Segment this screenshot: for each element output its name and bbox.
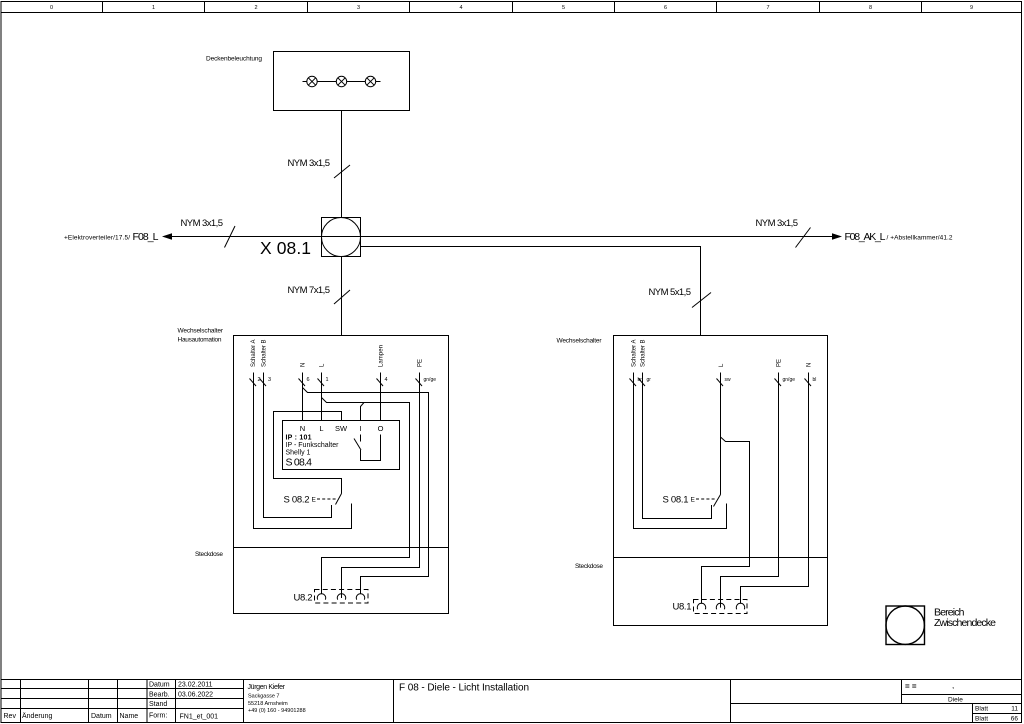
socket 2 (U8.2) [337,594,345,600]
wire X08.1 to right switch box [361,247,701,336]
svg-text:11: 11 [1011,706,1018,713]
svg-text:Schalter A: Schalter A [632,340,638,368]
svg-text:F08_AK_L: F08_AK_L [845,231,886,243]
svg-text:4: 4 [385,377,388,383]
socket group U8.1 dashed box [694,600,748,614]
svg-text:PE: PE [777,359,783,367]
svg-text:IP : 101: IP : 101 [286,435,312,442]
svg-text:I: I [359,424,361,433]
svg-text:Stand: Stand [149,701,167,708]
socket 3 (U8.1) [736,603,744,609]
svg-text:23.02.2011: 23.02.2011 [178,682,213,689]
svg-text:gn/ge: gn/ge [424,377,437,383]
svg-text:gr: gr [647,377,652,383]
svg-text:Sackgasse 7: Sackgasse 7 [248,693,280,699]
svg-text:U8.2: U8.2 [294,593,313,604]
branch N to socket rail [303,388,429,595]
cable slash (top) [334,165,350,178]
internal switch blade [354,439,361,451]
svg-text:S 08.4: S 08.4 [286,457,313,469]
svg-text:E: E [691,497,696,504]
svg-text:Zwischendecke: Zwischendecke [934,617,996,629]
svg-text:Shelly 1: Shelly 1 [286,450,311,457]
svg-text:2: 2 [254,5,257,11]
switch S08.2 open contact to Schalter A [254,504,352,529]
svg-text:gn/ge: gn/ge [783,377,796,383]
wire PE (right) [721,373,779,608]
svg-text:NYM 5x1,5: NYM 5x1,5 [649,287,692,298]
lamp box Deckenbeleuchtung [274,52,410,111]
terminal slash wire N (right) [805,379,812,387]
cable slash (NYM 7x1,5) [334,290,350,304]
wire PE (left) [342,373,420,599]
internal wire I to O [361,435,381,461]
Shelly relay box S08.4 [283,421,400,470]
wire lamp box to junction X08.1 [341,111,343,218]
svg-text:6: 6 [664,5,667,11]
svg-text:X 08.1: X 08.1 [260,238,311,258]
svg-text:4: 4 [459,5,462,11]
legend symbol Bereich Zwischendecke [886,606,925,645]
svg-text:6: 6 [307,377,310,383]
svg-text:N: N [807,363,813,367]
svg-text:IP - Funkschalter: IP - Funkschalter [286,442,340,449]
svg-text:Hausautomation: Hausautomation [178,337,222,344]
internal contact stub I [360,435,362,442]
svg-text:FN1_et_001: FN1_et_001 [180,714,219,721]
terminal slash wire Lampen [377,379,384,387]
svg-text:L: L [319,424,323,433]
svg-text:5: 5 [562,5,565,11]
svg-text:bl: bl [813,377,817,383]
svg-text:O: O [378,424,384,433]
svg-text:E: E [312,497,317,504]
svg-text:,: , [952,681,954,690]
wire Lampen [380,373,382,421]
arrow to F08_L [162,233,172,240]
svg-text:Steckdose: Steckdose [195,551,223,558]
switch S08.2 blade [336,494,342,505]
svg-text:F 08 - Diele - Licht Installat: F 08 - Diele - Licht Installation [399,683,529,694]
svg-text:+49 (0) 160 - 94901288: +49 (0) 160 - 94901288 [248,708,306,714]
svg-text:Lampen: Lampen [379,345,385,367]
svg-text:0: 0 [50,5,53,11]
terminal slash wire L [318,379,325,387]
svg-text:Wechselschalter: Wechselschalter [557,338,603,345]
svg-text:Rev: Rev [4,713,17,720]
svg-text:Form:: Form: [149,713,167,720]
svg-text:Datum: Datum [91,713,112,720]
switch S08.2 pole to Schalter B [264,505,332,518]
svg-text:3: 3 [268,377,271,383]
svg-text:NYM 3x1,5: NYM 3x1,5 [756,218,799,229]
socket 3 (U8.2) [356,594,364,600]
svg-text:66: 66 [1011,716,1019,723]
svg-text:Schalter B: Schalter B [262,340,268,368]
dashed actuator link S08.2 [317,498,336,500]
svg-text:Diele: Diele [948,697,963,704]
svg-text:F08_L: F08_L [133,231,159,243]
terminal slash wire PE [416,379,423,387]
cable slash (left) [225,226,236,248]
branch rail to Shelly I pin [361,403,365,421]
arrow to F08_AK_L [832,233,842,240]
title block grid [1,680,1022,723]
svg-text:Blatt: Blatt [975,716,988,723]
terminal slash wire A [250,379,257,387]
left switch box outline [234,336,449,614]
wire Schalter B (right) [643,373,712,519]
svg-text:PE: PE [418,359,424,367]
socket 2 (U8.1) [716,603,724,609]
svg-text:Schalter B: Schalter B [641,340,647,368]
svg-text:sw: sw [725,377,732,383]
svg-text:8: 8 [869,5,872,11]
svg-text:NYM 3x1,5: NYM 3x1,5 [181,218,224,229]
svg-text:Steckdose: Steckdose [575,563,603,570]
branch L to socket rail [322,398,410,595]
svg-text:Jürgen Kiefer: Jürgen Kiefer [248,684,286,691]
svg-text:55218 Arnsheim: 55218 Arnsheim [248,701,288,707]
svg-text:Bearb.: Bearb. [149,691,170,698]
title block texts [4,682,219,721]
terminal slash wire A (right) [630,379,637,387]
wire L (left) [321,373,323,421]
svg-text:03.06.2022: 03.06.2022 [178,691,213,698]
wire F08_L feed (horizontal) [170,236,834,238]
wire through lamps [303,81,381,83]
branch L to socket (right) [702,437,750,604]
wire L (right) [720,373,722,495]
terminal slash wire L (right) [717,379,724,387]
svg-text:S 08.1: S 08.1 [663,495,689,506]
switch S08.1 blade [714,495,721,507]
svg-text:Änderung: Änderung [22,712,52,720]
svg-text:3: 3 [357,5,360,11]
socket group U8.2 dashed box [315,590,369,604]
svg-text:+Elektroverteiler/17.5/: +Elektroverteiler/17.5/ [64,235,130,242]
wire N (right) [741,373,809,604]
terminal slash wire B (right) [639,379,646,387]
right switch box outline [614,336,828,626]
svg-text:= =: = = [905,682,917,691]
svg-text:7: 7 [766,5,769,11]
cable slash (NYM 5x1,5) [692,293,711,308]
terminal slash wire N [299,379,306,387]
lamp E3 [365,76,375,86]
svg-text:Name: Name [120,713,139,720]
wire Schalter B (left) [264,373,332,518]
terminal slash wire PE (right) [775,379,782,387]
svg-text:/ +Abstellkammer/41.2: / +Abstellkammer/41.2 [887,235,953,242]
junction box X 08.1 [322,218,361,257]
svg-text:U8.1: U8.1 [673,602,692,613]
svg-text:N: N [301,363,307,367]
svg-text:NYM 7x1,5: NYM 7x1,5 [288,285,331,296]
svg-text:1: 1 [326,377,329,383]
socket 1 (U8.2) [317,594,325,600]
svg-text:SW: SW [335,424,348,433]
wire N (left) [302,373,304,421]
dashed actuator link S08.1 [696,498,715,500]
svg-text:1: 1 [152,5,155,11]
svg-text:9: 9 [970,5,973,11]
lamp E2 [336,76,346,86]
svg-text:N: N [300,424,305,433]
svg-text:Blatt: Blatt [975,706,988,713]
wire Schalter A (right) [634,373,727,529]
wire Schalter A (left) [254,373,352,529]
svg-text:S 08.2: S 08.2 [284,495,310,506]
wire SW to switch S08.2 [274,412,342,494]
svg-text:NYM 3x1,5: NYM 3x1,5 [288,158,331,169]
cable slash (right) [796,228,811,248]
svg-text:Datum: Datum [149,682,170,689]
svg-text:Wechselschalter: Wechselschalter [178,328,224,335]
wire X08.1 to left switch box [341,257,343,336]
svg-text:Deckenbeleuchtung: Deckenbeleuchtung [206,56,262,63]
lamp E1 [307,76,317,86]
svg-text:2: 2 [258,377,261,383]
svg-text:Schalter A: Schalter A [251,340,257,368]
socket 1 (U8.1) [697,603,705,609]
terminal slash wire B [260,379,267,387]
